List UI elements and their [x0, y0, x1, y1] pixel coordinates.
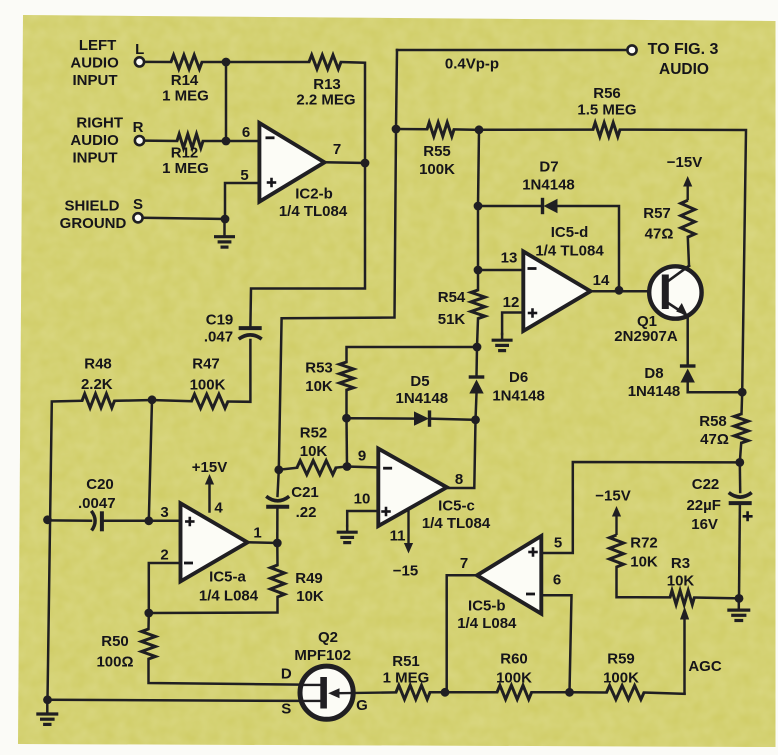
resistor R58: [734, 414, 748, 443]
svg-text:8: 8: [455, 471, 463, 488]
wire: L terminal to R14: [144, 61, 171, 64]
svg-text:1 MEG: 1 MEG: [383, 670, 430, 687]
svg-text:LEFT: LEFT: [79, 37, 117, 54]
svg-text:1N4148: 1N4148: [522, 177, 575, 194]
svg-text:47Ω: 47Ω: [700, 431, 729, 448]
wire: feedback line under IC5-a to R49: [149, 597, 278, 613]
svg-text:SHIELD: SHIELD: [64, 198, 119, 215]
svg-text:16V: 16V: [691, 516, 718, 533]
wire: R47 to R48 junction: [152, 400, 192, 401]
power -15V (R72): [615, 515, 617, 535]
resistor R59: [607, 686, 645, 700]
capacitor C20 .0047: [91, 511, 95, 531]
svg-text:D8: D8: [644, 365, 663, 382]
svg-text:100K: 100K: [190, 377, 226, 394]
ground (IC5-c pin 10): [346, 526, 349, 531]
svg-text:2: 2: [160, 547, 168, 564]
wire: junction to R56: [479, 128, 593, 131]
svg-text:7: 7: [333, 141, 341, 158]
ground (left bus): [46, 700, 49, 713]
wire: R3 wiper AGC arrow: [683, 619, 686, 694]
wire: audio feed down-left to C21 net: [279, 129, 396, 470]
wire: left bus to C20: [48, 519, 92, 522]
svg-text:C19: C19: [206, 312, 234, 329]
wire: IC2-b pin 5 to shield ground net: [225, 183, 259, 219]
wire: IC2-b output down and left to C19: [250, 163, 365, 326]
svg-text:G: G: [356, 697, 368, 714]
svg-text:R56: R56: [593, 85, 621, 102]
svg-text:IC5-b: IC5-b: [468, 598, 506, 615]
wire: node A down to R12 line: [225, 62, 228, 141]
wire: R47/R48 node down to pin 3 node: [149, 400, 152, 521]
svg-text:L: L: [135, 41, 144, 58]
svg-text:−15V: −15V: [667, 154, 702, 171]
ground (IC5-d pin 12): [501, 334, 504, 339]
svg-text:12: 12: [503, 294, 520, 311]
svg-text:+15V: +15V: [192, 459, 227, 476]
wire: R72 bottom to R3: [617, 567, 671, 597]
diode D6 1N4148: [475, 347, 478, 376]
svg-text:INPUT: INPUT: [73, 150, 118, 167]
svg-text:AUDIO: AUDIO: [70, 55, 119, 72]
Q2 drain internal lead: [302, 684, 320, 686]
svg-text:RIGHT: RIGHT: [76, 115, 123, 132]
transistor Q1 2N2907A: [649, 266, 701, 318]
wire: Q1 emitter down to D8: [686, 316, 689, 365]
wire: C20 to pin 3 junction: [102, 520, 149, 523]
wire: IC5-c pin 10 to ground: [347, 511, 378, 526]
wire: R50 top stub: [147, 613, 150, 629]
wire: IC5-d pin 14 output to Q1 base: [591, 290, 663, 293]
svg-text:.047: .047: [204, 329, 233, 346]
resistor R56: [593, 123, 620, 137]
svg-text:3: 3: [160, 504, 168, 521]
wire: pin 3 into IC5-a: [149, 520, 181, 523]
svg-text:4: 4: [214, 500, 223, 517]
junction: pin 9 node: [343, 462, 352, 471]
resistor R53: [340, 362, 354, 390]
wire: R53 stubs and feedback top line: [345, 390, 348, 418]
wire: D7 to IC5-d output node: [558, 206, 619, 290]
svg-text:2.2K: 2.2K: [81, 376, 113, 393]
wire: bus to R54: [477, 270, 480, 290]
wire: IC2-b pin 7 output: [325, 161, 366, 164]
svg-text:R14: R14: [171, 72, 199, 89]
svg-text:1 MEG: 1 MEG: [162, 88, 209, 105]
potentiometer R3 10K: [670, 591, 694, 605]
resistor R54: [471, 290, 485, 319]
wire: node to R60: [445, 691, 497, 694]
svg-text:1N4148: 1N4148: [396, 390, 449, 407]
resistor R48: [82, 394, 115, 408]
junction: C21/R52 node: [274, 465, 283, 474]
resistor R55: [427, 122, 454, 136]
wire: S terminal to ground junction: [143, 218, 225, 219]
svg-text:R54: R54: [438, 289, 466, 306]
svg-text:R13: R13: [313, 76, 341, 93]
svg-text:Q2: Q2: [318, 629, 338, 646]
svg-text:R72: R72: [630, 535, 658, 552]
diode D7 1N4148: [544, 199, 558, 213]
resistor R60: [497, 685, 532, 699]
svg-text:6: 6: [553, 572, 561, 589]
svg-text:AUDIO: AUDIO: [70, 132, 119, 149]
svg-text:IC5-c: IC5-c: [438, 498, 475, 515]
wire: D8 to right bus: [688, 383, 743, 393]
node B: R12 / pin6 junction: [222, 137, 231, 146]
svg-text:INPUT: INPUT: [73, 72, 118, 89]
wire: node to R59: [570, 691, 607, 694]
junction: R60/R59/IC5-b pin6: [565, 688, 574, 697]
svg-text:R47: R47: [192, 356, 220, 373]
power -15V (R57): [687, 185, 689, 200]
svg-text:7: 7: [460, 555, 468, 572]
junction: pin 3 node: [144, 516, 153, 525]
svg-text:TO FIG. 3: TO FIG. 3: [648, 41, 719, 58]
op-amp IC5-a: [181, 503, 248, 581]
node: TO FIG.3 AUDIO output terminal: [627, 45, 636, 54]
wire: R58 to C22 node: [740, 443, 741, 462]
junction: R47/R48/pin3 feed: [148, 395, 157, 404]
wire: R53 branch vertical: [345, 418, 348, 466]
wire: left ground bus bottom + source bus: [48, 700, 302, 701]
junction: left bus bottom: [43, 695, 52, 704]
svg-text:1/4 TL084: 1/4 TL084: [279, 203, 348, 220]
wire: D5 cathode to D6 node: [431, 419, 476, 420]
wire: IC5-d pin 12 to ground: [502, 313, 523, 335]
svg-text:1/4 L084: 1/4 L084: [457, 615, 517, 632]
svg-text:D7: D7: [539, 159, 558, 176]
junction: D7 anode node: [474, 202, 483, 211]
svg-text:D6: D6: [509, 369, 528, 386]
svg-text:.22: .22: [296, 504, 317, 521]
junction: left bus / C20: [43, 515, 52, 524]
svg-text:C22: C22: [692, 476, 720, 493]
wire: vertical feed from audio-out line down to R55 line: [396, 50, 397, 129]
wire: bus down to pin 13 node: [477, 206, 480, 270]
wire: IC5-a pin 2 feedback: [149, 563, 181, 613]
svg-text:10K: 10K: [300, 443, 328, 460]
junction: pin5/shield/ground: [221, 215, 230, 224]
wire: R51 to pin7 node: [430, 691, 445, 694]
wire: R3 right to ground node: [694, 596, 739, 599]
resistor R50: [142, 629, 156, 659]
wire: R50 bottom to Q2 drain: [149, 659, 323, 685]
diode D8 1N4148: [680, 364, 696, 367]
wire: pin 13 into IC5-d: [478, 269, 523, 272]
svg-text:C21: C21: [291, 484, 319, 501]
svg-text:−15: −15: [393, 563, 418, 580]
svg-text:R50: R50: [101, 633, 129, 650]
wire: node A to R13: [226, 61, 309, 64]
svg-text:S: S: [133, 196, 143, 213]
wire: R59 right to AGC riser: [644, 693, 685, 694]
svg-text:1N4148: 1N4148: [628, 383, 681, 400]
wire: bus from R55 junction down to D7 node: [478, 130, 479, 206]
ground (C22/R3): [738, 598, 741, 609]
resistor R12: [177, 134, 203, 148]
svg-text:5: 5: [240, 167, 248, 184]
junction: D8/right bus: [738, 388, 747, 397]
svg-text:−15V: −15V: [595, 488, 630, 505]
resistor R51: [396, 685, 430, 699]
svg-text:10K: 10K: [296, 588, 324, 605]
svg-text:22µF: 22µF: [686, 497, 721, 514]
junction: R53/D5 node: [342, 414, 351, 423]
resistor R49: [271, 565, 285, 597]
svg-text:R58: R58: [699, 413, 727, 430]
wire: IC5-b pin 5 up to C22 node: [541, 462, 740, 553]
junction: pin1/C21/R49 node: [273, 539, 282, 548]
op-amp IC2-b: [259, 123, 324, 202]
wire: node down to IC5-c pin 8: [446, 420, 475, 488]
power +15V (IC5-a pin 4): [208, 484, 211, 512]
svg-text:0.4Vp-p: 0.4Vp-p: [445, 56, 499, 73]
svg-text:R57: R57: [643, 205, 671, 222]
wire: D6 anode down to node: [476, 394, 477, 420]
wire: R56 to right bus corner: [620, 130, 746, 393]
svg-text:R60: R60: [500, 651, 528, 668]
svg-text:.0047: .0047: [78, 495, 116, 512]
junction: C22/R3/ground node: [735, 594, 744, 603]
capacitor C22 22uF 16V: [739, 462, 742, 492]
svg-text:IC5-d: IC5-d: [551, 224, 589, 241]
resistor R52: [297, 461, 336, 475]
svg-text:R: R: [133, 119, 144, 136]
svg-text:1 MEG: 1 MEG: [162, 160, 209, 177]
wire: R52 right to pin 9 junction: [336, 467, 347, 468]
node: output/R13 junction: [361, 159, 370, 168]
svg-text:51K: 51K: [438, 311, 466, 328]
resistor R14: [171, 55, 202, 69]
svg-text:1: 1: [253, 525, 261, 542]
svg-text:10K: 10K: [305, 378, 333, 395]
Q2 source internal lead: [302, 700, 320, 702]
junction: pin 13 node: [474, 266, 483, 275]
svg-text:R48: R48: [84, 356, 112, 373]
svg-text:MPF102: MPF102: [294, 647, 351, 664]
wire: R49 top to output node: [276, 543, 279, 565]
svg-text:R59: R59: [607, 651, 635, 668]
wire: 0.4Vp-p line to TO FIG.3 terminal: [397, 49, 628, 52]
wire: C21 bottom to pin1 node: [276, 508, 279, 544]
svg-text:10K: 10K: [630, 554, 658, 571]
wire: R48 left to left ground bus: [48, 401, 83, 700]
svg-text:14: 14: [593, 272, 610, 289]
resistor R13: [309, 55, 341, 69]
op-amp IC5-c: [378, 449, 447, 526]
ground (shield): [223, 219, 226, 236]
junction: D5/D6/pin8 node: [471, 415, 480, 424]
svg-text:AUDIO: AUDIO: [659, 61, 709, 78]
svg-text:47Ω: 47Ω: [645, 226, 674, 243]
wire: Q1 collector up to R57: [688, 237, 689, 266]
junction: R51/R60/IC5-b pin7: [441, 688, 450, 697]
svg-text:100K: 100K: [419, 161, 455, 178]
svg-text:100Ω: 100Ω: [96, 654, 133, 671]
svg-text:10K: 10K: [667, 573, 695, 590]
svg-text:R49: R49: [295, 570, 323, 587]
svg-text:D5: D5: [410, 373, 429, 390]
svg-text:1.5 MEG: 1.5 MEG: [577, 102, 636, 119]
svg-text:IC5-a: IC5-a: [209, 569, 246, 586]
svg-text:5: 5: [554, 535, 562, 552]
wire: R13 right end down to IC2-b output node: [341, 62, 365, 163]
resistor R47: [192, 394, 229, 408]
wire: R14 to node A junction: [202, 61, 226, 64]
svg-text:1N4148: 1N4148: [492, 388, 545, 405]
resistor R72: [610, 535, 624, 567]
wire: R52 left link: [279, 468, 297, 470]
wire: C19 bottom to R47 node: [228, 340, 250, 402]
wire: R48 junction link: [115, 399, 153, 402]
svg-text:10: 10: [354, 491, 371, 508]
svg-text:R3: R3: [671, 555, 690, 572]
svg-text:S: S: [281, 701, 291, 718]
svg-text:R55: R55: [423, 143, 451, 160]
junction: R54/D6/feedback node: [473, 343, 482, 352]
resistor R57: [681, 200, 695, 237]
svg-text:11: 11: [390, 528, 406, 545]
svg-text:IC2-b: IC2-b: [295, 186, 333, 203]
Q2 gate arrow: [328, 688, 339, 698]
svg-text:100K: 100K: [496, 670, 532, 687]
svg-text:R12: R12: [171, 145, 199, 162]
junction: R55 left node: [392, 125, 401, 134]
svg-text:R51: R51: [392, 653, 420, 670]
wire: R terminal to R12: [144, 139, 177, 142]
diode D5 1N4148: [414, 411, 429, 425]
wire: R55 to bus junction: [454, 128, 479, 131]
wire: D5 line: [347, 417, 415, 420]
svg-text:1/4 L084: 1/4 L084: [199, 588, 259, 605]
svg-text:1/4 TL084: 1/4 TL084: [535, 243, 604, 260]
svg-text:1/4 TL084: 1/4 TL084: [422, 515, 491, 532]
op-amp IC5-b (points left): [477, 536, 541, 614]
wire: IC5-a pin 1 output: [248, 541, 278, 544]
wire: right bus to R58: [740, 392, 743, 414]
svg-text:R53: R53: [305, 360, 333, 377]
op-amp IC5-d: [523, 251, 590, 331]
svg-text:13: 13: [501, 250, 518, 267]
wire: R54 bottom to feedback corner: [477, 319, 478, 347]
node A: summing junction top: [222, 58, 231, 67]
svg-text:D: D: [281, 666, 292, 683]
svg-text:100K: 100K: [603, 670, 639, 687]
junction: R58/C22/pin5 feed node: [735, 458, 744, 467]
wire: IC5-b pin 6 down to R60/R59 node: [541, 595, 571, 692]
svg-text:6: 6: [242, 124, 250, 141]
junction: R55/R56/detector bus: [475, 125, 484, 134]
svg-text:C20: C20: [86, 476, 114, 493]
wire: pin 9 into IC5-c: [347, 467, 378, 468]
wire: IC5-b pin 7 output down to bottom bus: [447, 575, 477, 692]
capacitor C19 .047: [239, 326, 262, 330]
svg-text:GROUND: GROUND: [60, 215, 127, 232]
svg-text:2N2907A: 2N2907A: [614, 328, 678, 345]
svg-text:2.2 MEG: 2.2 MEG: [296, 92, 355, 109]
svg-text:9: 9: [358, 448, 366, 465]
capacitor C21 .22: [278, 470, 279, 496]
wire: junction to R55: [396, 128, 427, 131]
junction: pin2/R50/feedback: [144, 609, 153, 618]
wire: R12 to IC2-b pin 6: [203, 140, 259, 143]
wire: R60 to pin6 node: [532, 691, 570, 694]
svg-text:AGC: AGC: [688, 658, 722, 675]
wire: D7 node to diode: [478, 205, 542, 208]
junction: output/D7 node: [615, 286, 624, 295]
svg-text:R52: R52: [300, 425, 328, 442]
